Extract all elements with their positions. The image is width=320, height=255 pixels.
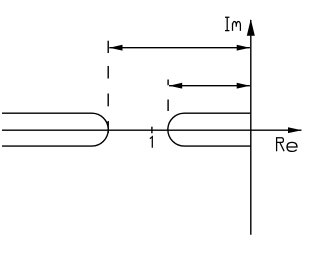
dimension line 1 extension tick xyxy=(107,41,109,53)
dimension line 2 right arrowhead xyxy=(237,83,250,89)
dimension line 2 left arrowhead xyxy=(169,83,182,89)
Im axis arrowhead xyxy=(247,19,255,36)
dashed extension line at x=168 (to right contour tip) xyxy=(167,80,169,86)
dimension line 1 right arrowhead xyxy=(237,45,250,51)
Re axis (horizontal real axis line) xyxy=(2,129,302,131)
dashed extension line at x=108 (to left contour tip) xyxy=(107,66,109,79)
dimension line 1 left arrowhead xyxy=(109,45,122,51)
label 1 (tick value) xyxy=(150,137,152,148)
label Im xyxy=(225,17,229,30)
dimension line 2 (from x=168 to Im axis) xyxy=(169,85,250,87)
right branch-cut contour (stadium, left cap, ends at Im axis) xyxy=(168,113,251,146)
left branch-cut contour (stadium, open at left edge) xyxy=(2,113,108,146)
label Re xyxy=(277,138,285,151)
Im axis (vertical imaginary axis line) xyxy=(250,20,252,235)
tick mark at x=1 on real axis xyxy=(151,127,153,134)
dimension line 1 (top, from x=108 to Im axis) xyxy=(109,47,250,49)
Re axis arrowhead xyxy=(288,127,302,133)
